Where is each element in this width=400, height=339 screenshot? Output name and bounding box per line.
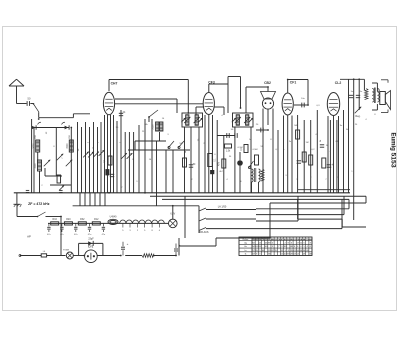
- switch S6: [17, 204, 61, 217]
- resistor R5: [208, 154, 217, 167]
- junction: [120, 255, 122, 257]
- resistor R10: [255, 155, 259, 165]
- value label: [231, 129, 234, 131]
- junction: [175, 255, 177, 257]
- value label: [306, 142, 309, 144]
- junction: [267, 129, 269, 131]
- label CL2: [335, 81, 342, 85]
- wire: [333, 116, 335, 193]
- coil L1: [34, 140, 40, 152]
- value label: [53, 146, 55, 148]
- capacitor C7: [227, 133, 229, 138]
- wire: [79, 243, 103, 255]
- switch S3: [168, 141, 174, 149]
- switch S4: [178, 141, 184, 149]
- wire: [283, 116, 285, 193]
- tap: [151, 223, 153, 232]
- wire: [31, 119, 33, 193]
- wire: [73, 205, 199, 207]
- wire: [48, 222, 169, 224]
- value label: [46, 131, 48, 134]
- trimmer T2: [57, 154, 63, 160]
- svg-text:3000: 3000: [67, 143, 69, 149]
- heater dropper L5: [120, 220, 165, 223]
- capacitor C6: [189, 164, 196, 167]
- wire: [338, 116, 340, 193]
- value label: [142, 131, 145, 133]
- tube V4: [282, 93, 293, 115]
- value label: [203, 143, 205, 145]
- wire: [267, 109, 269, 125]
- value label: [256, 124, 259, 126]
- wire: [99, 193, 101, 206]
- svg-text:5M: 5M: [261, 146, 264, 148]
- value label: [93, 146, 95, 149]
- label AP: [27, 235, 31, 239]
- wire: [115, 99, 177, 113]
- wire: [223, 136, 225, 193]
- value label: [355, 124, 358, 126]
- value label: [270, 139, 272, 141]
- value label: [41, 185, 43, 187]
- value label: [325, 179, 327, 181]
- trimmer T5: [83, 152, 89, 158]
- switch S1: [34, 104, 40, 112]
- value label: [226, 179, 228, 181]
- capacitor C5: [110, 174, 114, 176]
- barretter U4949: [108, 217, 118, 225]
- trimmer T4: [59, 185, 64, 190]
- wire: [19, 255, 41, 257]
- bus: [162, 198, 349, 200]
- resistor R9: [241, 145, 248, 153]
- wire: [84, 193, 86, 206]
- svg-text:CL2: CL2: [335, 81, 342, 85]
- trimmer T7: [93, 152, 99, 158]
- trimmer T3: [66, 160, 72, 166]
- value label: [97, 142, 99, 144]
- wire: [77, 122, 79, 193]
- wire: [256, 199, 349, 208]
- capacitor (heater): [102, 223, 106, 235]
- svg-text:CH7: CH7: [111, 82, 118, 86]
- wire: [184, 127, 186, 193]
- tap: [122, 223, 124, 232]
- wire: [124, 132, 126, 193]
- fuse F1: [41, 251, 46, 257]
- wire: [228, 77, 241, 114]
- wire: [343, 110, 345, 193]
- capacitor C18: [59, 190, 62, 192]
- value label: [253, 149, 258, 151]
- resistor R12: [296, 130, 300, 139]
- value label: [219, 171, 223, 173]
- junction: [153, 255, 155, 257]
- value label: [221, 115, 223, 117]
- wire: [272, 109, 274, 193]
- value label: [289, 141, 292, 143]
- value label: [340, 125, 343, 127]
- svg-text:R12: R12: [94, 218, 99, 221]
- value label: [275, 149, 279, 151]
- trimmer T1: [44, 160, 50, 166]
- value label: [144, 124, 148, 126]
- capacitor C8: [235, 133, 237, 138]
- value label: [326, 145, 329, 147]
- IF transformer IF2: [232, 113, 253, 127]
- svg-text:DR.AUS: DR.AUS: [199, 231, 208, 234]
- svg-text:0,5M: 0,5M: [253, 149, 258, 151]
- svg-text:R20: R20: [66, 218, 71, 221]
- tap: [144, 223, 146, 232]
- value label: [238, 147, 243, 149]
- wire: [216, 120, 218, 193]
- wire: [89, 193, 91, 206]
- resistor R32: [78, 218, 86, 225]
- value label: [283, 149, 285, 151]
- svg-text:LA 1/50: LA 1/50: [218, 206, 227, 209]
- wire: [208, 115, 210, 193]
- wire: [39, 112, 90, 117]
- wire: [93, 122, 95, 193]
- value label: [121, 187, 123, 189]
- capacitor C11: [294, 103, 308, 108]
- wire: [50, 184, 71, 186]
- junction: [287, 79, 289, 81]
- capacitor C9: [237, 152, 243, 193]
- capacitor C10: [256, 128, 268, 133]
- wire: [104, 115, 106, 193]
- resistor R11: [261, 169, 264, 181]
- wire: [97, 255, 121, 257]
- junction: [358, 78, 360, 80]
- value label: [316, 105, 320, 107]
- capacitor C4: [119, 111, 126, 116]
- trimmer T9: [121, 153, 127, 159]
- value label: [249, 139, 252, 141]
- label CF3: [208, 81, 215, 85]
- wire: [128, 132, 130, 193]
- value label: [179, 143, 183, 145]
- resistor R14: [309, 155, 313, 165]
- value label: [296, 179, 298, 181]
- capacitor C15: [349, 95, 353, 97]
- junction: [70, 127, 72, 129]
- svg-text:3000: 3000: [153, 124, 155, 130]
- wire: [73, 255, 84, 257]
- capacitor C21: [174, 243, 181, 256]
- wire: [250, 127, 252, 193]
- resistor R20: [64, 218, 72, 225]
- wire: [256, 196, 344, 214]
- trimmer T6: [88, 152, 94, 158]
- wire: [297, 115, 299, 193]
- capacitor C17: [26, 190, 29, 192]
- junction: [267, 86, 269, 88]
- wire: [340, 78, 364, 80]
- value label: [311, 149, 315, 151]
- coil L3: [35, 160, 41, 171]
- wire: [79, 193, 81, 206]
- svg-text:+: +: [127, 242, 129, 246]
- wire: [246, 87, 268, 92]
- wire: [156, 141, 158, 193]
- wire: [310, 120, 312, 193]
- ground: [14, 193, 22, 207]
- svg-text:U4949: U4949: [110, 217, 117, 219]
- svg-text:+: +: [301, 159, 303, 163]
- svg-text:Reg.: Reg.: [355, 115, 361, 118]
- value label: [374, 114, 376, 116]
- resistor R16: [365, 89, 368, 100]
- svg-text:3000: 3000: [34, 143, 36, 149]
- value label: [136, 181, 138, 183]
- wire: [184, 196, 186, 238]
- coil L4: [153, 122, 163, 131]
- resistor R12: [92, 218, 100, 225]
- capacitor C3: [62, 122, 70, 129]
- value label: [132, 159, 134, 161]
- value label: [285, 175, 287, 177]
- svg-text:Eumig: Eumig: [389, 133, 395, 152]
- value label: [240, 181, 242, 183]
- wire: [172, 150, 174, 193]
- svg-text:23µF: 23µF: [88, 239, 94, 241]
- wire: [104, 193, 106, 206]
- wire: [329, 120, 331, 193]
- capacitor C2: [32, 122, 41, 129]
- capacitor C1: [27, 97, 31, 106]
- tube V2: [203, 93, 214, 115]
- resistor R6: [211, 170, 214, 173]
- wire: [288, 80, 308, 106]
- capacitor (heater): [74, 223, 78, 235]
- junction: [240, 107, 242, 109]
- wire: [116, 121, 118, 193]
- wire: [107, 115, 109, 193]
- wire: [353, 79, 355, 220]
- wire: [298, 189, 350, 191]
- wire: [165, 150, 167, 193]
- wire: [217, 135, 235, 137]
- svg-text:P23M: P23M: [63, 250, 69, 252]
- value label: [167, 134, 169, 136]
- wire: [133, 132, 135, 193]
- svg-text:0,1M: 0,1M: [238, 147, 243, 149]
- resistor R16: [51, 218, 59, 225]
- wire: [190, 127, 192, 193]
- wire: [156, 193, 158, 206]
- resistor R7: [225, 144, 232, 153]
- bus: [14, 192, 350, 194]
- wire: [89, 127, 91, 193]
- resistor R1: [57, 175, 61, 183]
- wire: [277, 130, 279, 193]
- capacitor C19: [88, 239, 94, 246]
- resistor R2: [104, 156, 112, 165]
- trimmer T8: [99, 150, 105, 156]
- antenna: [9, 79, 24, 103]
- label ZF: [28, 202, 50, 206]
- wire: [47, 255, 66, 257]
- wire: [17, 103, 27, 105]
- junction: [83, 255, 85, 257]
- wire: [128, 149, 190, 151]
- wire: [135, 132, 166, 150]
- value label: [151, 177, 153, 179]
- value label: [87, 142, 89, 144]
- wire: [138, 125, 140, 193]
- value label: [162, 118, 165, 120]
- svg-text:Rohre: Rohre: [243, 238, 250, 241]
- wire: [262, 109, 264, 193]
- value label: [78, 148, 80, 151]
- value label: [149, 159, 152, 161]
- wire: [363, 79, 365, 90]
- junction: [187, 112, 189, 114]
- capacitor (heater): [88, 223, 92, 235]
- svg-text:c: c: [119, 142, 120, 144]
- wire: [336, 120, 338, 193]
- wire: [358, 79, 360, 110]
- value label: [346, 129, 349, 131]
- resistor R8: [219, 159, 226, 168]
- svg-text:1000: 1000: [35, 163, 37, 169]
- value label: [351, 91, 354, 93]
- wire: [204, 115, 206, 193]
- capacitor C12: [297, 159, 304, 163]
- value label: [329, 151, 331, 153]
- value label: [351, 171, 353, 173]
- wire: [298, 199, 366, 227]
- value label: [360, 91, 363, 93]
- wire: [81, 127, 83, 193]
- tap: [137, 223, 139, 232]
- wire: [256, 196, 298, 221]
- wire: [94, 193, 96, 206]
- switch S2: [148, 110, 158, 118]
- wire: [179, 238, 216, 246]
- wire: [216, 196, 366, 238]
- transformer TR2: [372, 88, 379, 104]
- value label: [35, 134, 37, 138]
- resistor R4: [183, 158, 187, 167]
- svg-text:AP: AP: [27, 235, 31, 239]
- wire: [178, 238, 180, 256]
- value label: [198, 138, 200, 141]
- value label: [191, 179, 193, 181]
- value label: [320, 139, 322, 142]
- svg-text:CF1: CF1: [290, 81, 297, 85]
- value label: [337, 177, 339, 179]
- junction: [38, 118, 40, 120]
- resistor R17: [142, 254, 154, 258]
- wire: [291, 116, 293, 193]
- junction: [353, 78, 355, 80]
- junction: [60, 216, 62, 218]
- valve data table: [239, 237, 312, 256]
- wire: [151, 119, 153, 193]
- tube V5: [327, 93, 339, 116]
- junction: [144, 192, 146, 194]
- junction: [172, 205, 174, 207]
- capacitor (heater): [60, 223, 64, 235]
- wire: [33, 128, 35, 193]
- wire: [148, 117, 150, 122]
- tube V1: [103, 92, 114, 114]
- label CF1: [290, 81, 297, 85]
- value label: [336, 141, 340, 143]
- wire: [70, 128, 72, 193]
- capacitor C13: [320, 145, 324, 147]
- wire: [209, 84, 228, 92]
- wire: [154, 255, 176, 257]
- svg-text:R16: R16: [53, 218, 58, 221]
- wire: [115, 103, 203, 105]
- label CH7: [111, 82, 118, 86]
- value label: [185, 150, 187, 153]
- value label: [261, 146, 264, 148]
- value label: [315, 134, 317, 136]
- wire: [245, 87, 247, 113]
- resistor R13: [302, 152, 306, 162]
- value label: [301, 98, 305, 100]
- switch S5: [248, 161, 253, 169]
- svg-text:CB2: CB2: [264, 81, 271, 85]
- value label: [365, 119, 367, 121]
- wire: [287, 116, 289, 193]
- value label: [119, 142, 120, 144]
- label CB2: [264, 81, 271, 85]
- switch bank: [199, 206, 256, 234]
- wire: [113, 115, 115, 193]
- wire: [212, 115, 214, 193]
- capacitor C14: [327, 163, 334, 167]
- wire: [109, 80, 188, 114]
- value label: [310, 177, 312, 179]
- tap: [129, 223, 131, 232]
- svg-text:ZF = 472 kHz: ZF = 472 kHz: [28, 202, 50, 206]
- wire: [234, 127, 236, 193]
- svg-text:R32: R32: [80, 218, 85, 221]
- loudspeaker LS: [372, 80, 391, 113]
- junction: [307, 104, 309, 106]
- capacitor C16: [356, 95, 360, 97]
- value label: [116, 127, 119, 129]
- capacitor (heater): [47, 223, 51, 235]
- wire: [45, 168, 62, 176]
- value label: [62, 157, 64, 159]
- wire: [100, 122, 102, 193]
- wire: [348, 79, 350, 193]
- wire: [256, 199, 342, 228]
- screen box: [196, 107, 224, 115]
- wire: [85, 122, 87, 193]
- wire: [316, 110, 318, 193]
- lamp P2: [63, 250, 73, 260]
- wire: [97, 127, 99, 193]
- label Eumig 5153: [389, 133, 396, 168]
- IF transformer IF1: [181, 113, 202, 127]
- wire: [38, 152, 57, 193]
- resistor R3: [106, 170, 109, 176]
- value label: [69, 134, 71, 138]
- tube V3: [261, 92, 276, 110]
- junction: [108, 192, 110, 194]
- rectifier tube CY1: [85, 244, 98, 262]
- wire: [30, 103, 34, 105]
- wire: [327, 116, 329, 193]
